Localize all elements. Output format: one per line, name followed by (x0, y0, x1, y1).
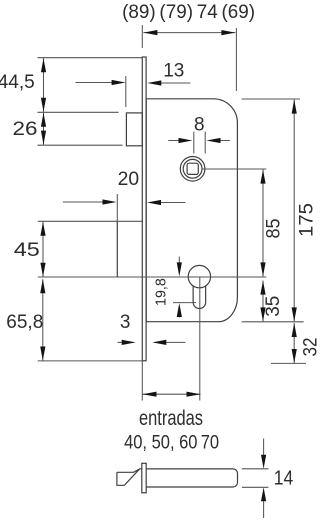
svg-text:(89) (79) 74 (69): (89) (79) 74 (69) (122, 2, 255, 23)
svg-text:8: 8 (194, 115, 205, 136)
svg-text:35: 35 (263, 296, 284, 317)
svg-text:26: 26 (13, 119, 38, 140)
svg-text:45: 45 (14, 240, 40, 261)
svg-text:19,8: 19,8 (153, 278, 170, 306)
svg-text:175: 175 (297, 203, 318, 237)
svg-text:44,5: 44,5 (0, 72, 35, 93)
svg-text:32: 32 (301, 338, 320, 357)
svg-text:14: 14 (274, 467, 294, 489)
svg-text:3: 3 (120, 312, 131, 333)
svg-text:13: 13 (163, 61, 184, 82)
svg-text:20: 20 (118, 169, 140, 190)
svg-text:entradas: entradas (139, 407, 203, 430)
svg-text:85: 85 (263, 219, 284, 239)
svg-text:40, 50, 60 70: 40, 50, 60 70 (124, 431, 219, 453)
svg-text:65,8: 65,8 (6, 312, 43, 333)
